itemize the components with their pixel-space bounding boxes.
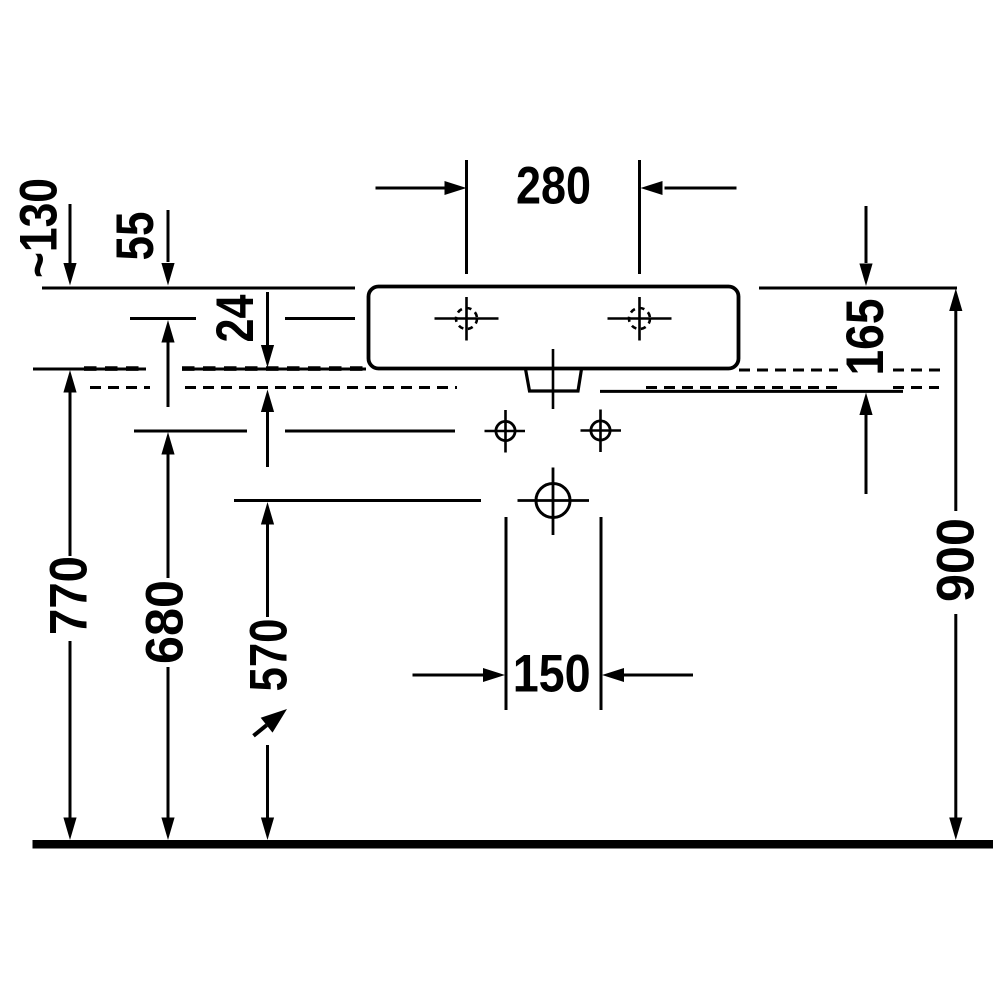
150 dimension arrows: [413, 674, 694, 677]
55 lower arrow: [167, 342, 170, 407]
~130 arrow: [69, 204, 72, 263]
right faucet hole crosshair: [608, 297, 672, 341]
faucet hole axis extension line: [130, 317, 355, 320]
svg-text:55: 55: [106, 212, 165, 261]
280 dimension arrows: [376, 187, 737, 190]
mounting holes axis line: [134, 430, 455, 433]
height adjust arrow: [254, 725, 267, 736]
svg-text:~130: ~130: [10, 178, 69, 278]
svg-text:570: 570: [239, 619, 298, 692]
svg-text:680: 680: [135, 580, 194, 664]
280 extension lines: [467, 160, 640, 274]
770 dimension line: [69, 392, 72, 818]
drain axis line: [234, 499, 481, 502]
165 upper arrow: [865, 206, 868, 263]
drain hole circle: [518, 468, 590, 536]
right mounting hole: [581, 410, 622, 453]
right baseline solid line: [600, 390, 903, 393]
svg-text:770: 770: [40, 556, 99, 635]
570 dimension line: [266, 524, 269, 818]
24 lower arrow: [266, 412, 269, 467]
svg-text:150: 150: [513, 645, 591, 704]
900 dimension line: [954, 311, 957, 819]
hidden rim dashed line right: [739, 369, 941, 372]
washbasin body outline: [369, 287, 739, 369]
55 upper arrow: [167, 210, 170, 262]
24 upper arrow: [266, 292, 269, 345]
lower dashed line: [90, 386, 939, 389]
svg-text:280: 280: [516, 157, 591, 216]
165 lower arrow: [865, 415, 868, 495]
left faucet hole crosshair: [435, 297, 499, 341]
drain centerline: [552, 349, 555, 409]
svg-text:165: 165: [836, 299, 895, 376]
svg-text:900: 900: [927, 518, 986, 602]
hidden rim line left (solid with dashes): [33, 368, 366, 371]
680 dimension line: [167, 454, 170, 818]
left mounting hole: [485, 410, 526, 453]
floor line: [33, 840, 994, 849]
drain spout trapezoid: [526, 369, 582, 391]
top reference line: [42, 287, 957, 290]
svg-text:24: 24: [206, 294, 265, 342]
150 extension lines: [506, 517, 601, 710]
